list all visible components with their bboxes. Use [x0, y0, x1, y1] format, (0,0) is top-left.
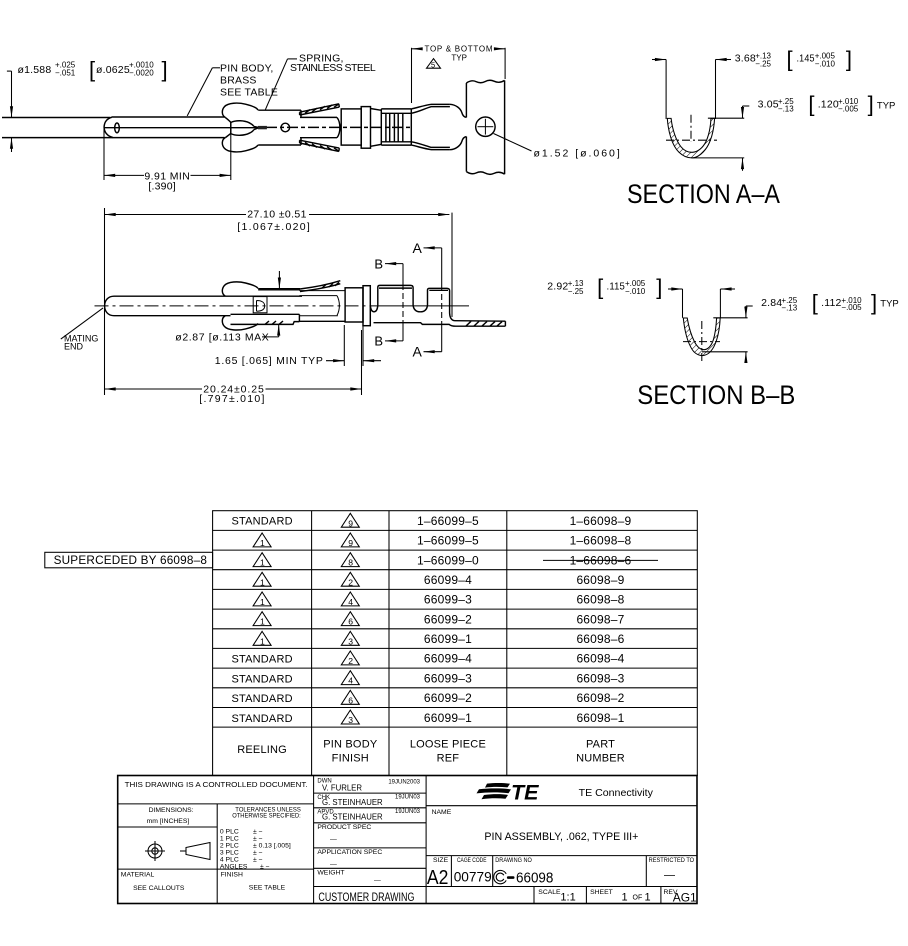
svg-text:G. STEINHAUER: G. STEINHAUER: [322, 798, 383, 807]
svg-text:5: 5: [431, 61, 435, 70]
svg-text:mm [INCHES]: mm [INCHES]: [147, 818, 190, 825]
svg-text:−.13: −.13: [781, 303, 797, 312]
svg-text:TYP: TYP: [880, 299, 898, 310]
svg-text:± −: ± −: [253, 857, 263, 864]
svg-text:DIMENSIONS:: DIMENSIONS:: [149, 807, 194, 814]
svg-text:1: 1: [260, 538, 265, 548]
svg-text:PIN BODY,: PIN BODY,: [220, 63, 274, 75]
svg-text:REF: REF: [437, 753, 460, 765]
svg-text:2 PLC: 2 PLC: [220, 843, 239, 850]
svg-text:]: ]: [846, 47, 852, 72]
svg-text:SUPERCEDED BY 66098–8: SUPERCEDED BY 66098–8: [54, 553, 208, 567]
svg-text:66098–6: 66098–6: [576, 632, 624, 646]
svg-text:66099–1: 66099–1: [424, 632, 472, 646]
svg-text:1–66099–0: 1–66099–0: [417, 553, 479, 567]
svg-text:3.68: 3.68: [735, 52, 756, 64]
svg-text:ø1.52 [ø.060]: ø1.52 [ø.060]: [534, 148, 621, 160]
svg-text:SCALE: SCALE: [538, 889, 561, 896]
svg-text:OF: OF: [633, 894, 643, 901]
svg-text:[: [: [787, 47, 793, 72]
svg-text:[.390]: [.390]: [148, 180, 175, 192]
svg-text:2.84: 2.84: [761, 297, 782, 309]
svg-text:FINISH: FINISH: [221, 872, 243, 879]
svg-text:[.797±.010]: [.797±.010]: [199, 393, 264, 405]
svg-text:6: 6: [348, 695, 353, 705]
svg-text:1: 1: [260, 558, 265, 568]
svg-text:SIZE: SIZE: [433, 857, 449, 864]
svg-text:1–66099–5: 1–66099–5: [417, 514, 479, 528]
svg-text:66099–3: 66099–3: [424, 593, 472, 607]
svg-text:3: 3: [348, 715, 353, 725]
svg-text:.115: .115: [607, 280, 626, 292]
svg-text:66098: 66098: [516, 871, 553, 887]
svg-text:3 PLC: 3 PLC: [220, 850, 239, 857]
svg-text:19JUN03: 19JUN03: [395, 809, 421, 815]
svg-text:19JUN2003: 19JUN2003: [388, 780, 420, 786]
svg-text:THIS DRAWING IS A CONTROLLED D: THIS DRAWING IS A CONTROLLED DOCUMENT.: [125, 780, 308, 789]
svg-text:NAME: NAME: [432, 809, 452, 816]
svg-text:A: A: [413, 344, 423, 360]
svg-text:SEE CALLOUTS: SEE CALLOUTS: [133, 885, 185, 892]
svg-text:1 PLC: 1 PLC: [220, 836, 239, 843]
svg-text:66099–1: 66099–1: [424, 711, 472, 725]
svg-text:1: 1: [260, 636, 265, 646]
svg-text:ANGLES: ANGLES: [220, 864, 248, 871]
svg-text:8: 8: [348, 558, 353, 568]
svg-text:−.0020: −.0020: [129, 69, 154, 78]
svg-text:—: —: [330, 861, 337, 868]
svg-text:66098–2: 66098–2: [576, 691, 624, 705]
svg-text:ø2.87 [ø.113 MAX: ø2.87 [ø.113 MAX: [175, 332, 269, 344]
svg-text:]: ]: [868, 92, 874, 117]
svg-text:DRAWING NO: DRAWING NO: [495, 857, 532, 864]
svg-text:± −: ± −: [253, 836, 263, 843]
svg-text:REELING: REELING: [237, 744, 287, 756]
svg-text:66099–2: 66099–2: [424, 691, 472, 705]
svg-text:−.005: −.005: [838, 105, 859, 114]
svg-text:.145: .145: [797, 52, 815, 64]
svg-text:2: 2: [348, 577, 353, 587]
svg-text:NUMBER: NUMBER: [576, 753, 625, 765]
svg-text:1–66098–9: 1–66098–9: [570, 514, 632, 528]
svg-text:[1.067±.020]: [1.067±.020]: [237, 221, 310, 233]
svg-text:G. STEINHAUER: G. STEINHAUER: [322, 813, 383, 822]
svg-text:TYP: TYP: [877, 100, 895, 111]
svg-text:OTHERWISE SPECIFIED:: OTHERWISE SPECIFIED:: [232, 813, 301, 820]
svg-text:]: ]: [871, 290, 877, 315]
svg-text:1: 1: [260, 577, 265, 587]
svg-text:STANDARD: STANDARD: [231, 654, 292, 666]
svg-text:TE Connectivity: TE Connectivity: [579, 788, 653, 799]
svg-text:STANDARD: STANDARD: [231, 693, 292, 705]
svg-text:]: ]: [656, 274, 662, 299]
svg-text:−.005: −.005: [841, 303, 862, 312]
svg-text:APPLICATION SPEC: APPLICATION SPEC: [317, 849, 382, 856]
svg-text:TYP: TYP: [451, 53, 467, 62]
svg-text:FINISH: FINISH: [332, 753, 369, 765]
svg-text:66098–1: 66098–1: [576, 711, 624, 725]
svg-text:[: [: [597, 274, 603, 299]
svg-text:[: [: [808, 92, 814, 117]
svg-text:AG1: AG1: [673, 891, 697, 905]
svg-text:00779: 00779: [454, 869, 492, 885]
svg-text:66099–4: 66099–4: [424, 573, 472, 587]
svg-text:[: [: [89, 57, 95, 82]
svg-text:RESTRICTED TO: RESTRICTED TO: [649, 857, 695, 864]
svg-text:± 0.13 [.005]: ± 0.13 [.005]: [253, 843, 291, 850]
svg-text:PRODUCT SPEC: PRODUCT SPEC: [317, 824, 371, 831]
svg-text:SEE TABLE: SEE TABLE: [220, 87, 278, 99]
svg-text:ø1.588: ø1.588: [18, 64, 52, 76]
svg-text:B: B: [374, 334, 383, 349]
svg-text:A: A: [413, 240, 423, 256]
svg-text:2.92: 2.92: [547, 280, 568, 292]
svg-text:1: 1: [260, 617, 265, 627]
svg-text:66098–9: 66098–9: [576, 573, 624, 587]
svg-text:−.25: −.25: [755, 59, 771, 68]
svg-text:3: 3: [348, 636, 353, 646]
svg-text:WEIGHT: WEIGHT: [317, 870, 344, 877]
svg-text:± −: ± −: [260, 864, 270, 871]
svg-text:0 PLC: 0 PLC: [220, 829, 239, 836]
svg-text:PIN BODY: PIN BODY: [323, 739, 378, 751]
svg-text:[: [: [812, 290, 818, 315]
svg-text:A2: A2: [427, 867, 449, 889]
svg-text:STANDARD: STANDARD: [231, 713, 292, 725]
svg-text:−.051: −.051: [55, 69, 76, 78]
svg-text:PART: PART: [586, 739, 615, 751]
svg-text:19JUN03: 19JUN03: [395, 794, 421, 800]
svg-text:± −: ± −: [253, 829, 263, 836]
svg-text:−.010: −.010: [815, 59, 836, 68]
svg-text:V. FURLER: V. FURLER: [322, 783, 362, 792]
svg-text:−.010: −.010: [625, 287, 646, 296]
svg-text:66098–4: 66098–4: [576, 652, 624, 666]
svg-text:CAGE CODE: CAGE CODE: [457, 857, 487, 864]
svg-text:]: ]: [162, 57, 168, 82]
svg-text:6: 6: [348, 617, 353, 627]
svg-text:1.65 [.065] MIN TYP: 1.65 [.065] MIN TYP: [215, 355, 323, 367]
svg-text:66099–2: 66099–2: [424, 612, 472, 626]
svg-text:END: END: [64, 341, 84, 351]
svg-text:LOOSE PIECE: LOOSE PIECE: [410, 739, 486, 751]
svg-text:—: —: [330, 837, 337, 844]
svg-text:66098–7: 66098–7: [576, 612, 624, 626]
svg-text:9: 9: [348, 518, 353, 528]
svg-text:1–66099–5: 1–66099–5: [417, 534, 479, 548]
svg-text:.112: .112: [821, 297, 841, 309]
svg-text:MATERIAL: MATERIAL: [121, 872, 155, 879]
svg-text:9: 9: [348, 538, 353, 548]
svg-text:STANDARD: STANDARD: [231, 516, 292, 528]
svg-text:−.13: −.13: [778, 105, 794, 114]
svg-text:1: 1: [260, 597, 265, 607]
svg-text:3.05: 3.05: [758, 99, 779, 111]
svg-text:1: 1: [645, 892, 651, 904]
svg-text:SHEET: SHEET: [590, 889, 613, 896]
svg-text:TE: TE: [511, 780, 539, 804]
svg-text:4: 4: [348, 676, 353, 686]
svg-text:CUSTOMER DRAWING: CUSTOMER DRAWING: [318, 892, 414, 904]
svg-text:BRASS: BRASS: [220, 75, 257, 87]
svg-text:TOP & BOTTOM: TOP & BOTTOM: [425, 44, 493, 53]
svg-text:66098–3: 66098–3: [576, 671, 624, 685]
svg-text:SEE TABLE: SEE TABLE: [249, 884, 286, 891]
svg-text:−.25: −.25: [568, 287, 584, 296]
svg-text:PIN ASSEMBLY, .062, TYPE III+: PIN ASSEMBLY, .062, TYPE III+: [484, 831, 638, 843]
svg-text:66099–4: 66099–4: [424, 652, 472, 666]
svg-text:1: 1: [622, 892, 628, 904]
svg-text:SECTION B–B: SECTION B–B: [637, 380, 795, 410]
svg-text:1–66098–8: 1–66098–8: [570, 534, 632, 548]
svg-text:STAINLESS STEEL: STAINLESS STEEL: [290, 62, 376, 74]
svg-text:66099–3: 66099–3: [424, 671, 472, 685]
svg-text:2: 2: [348, 656, 353, 666]
svg-text:1:1: 1:1: [560, 892, 575, 904]
svg-text:STANDARD: STANDARD: [231, 673, 292, 685]
svg-text:± −: ± −: [253, 850, 263, 857]
svg-text:B: B: [374, 257, 383, 272]
svg-text:66098–8: 66098–8: [576, 593, 624, 607]
svg-text:.120: .120: [818, 99, 839, 111]
svg-text:4 PLC: 4 PLC: [220, 857, 239, 864]
svg-text:—: —: [374, 877, 381, 884]
svg-text:27.10 ±0.51: 27.10 ±0.51: [247, 209, 307, 221]
svg-text:SECTION A–A: SECTION A–A: [627, 179, 780, 209]
svg-text:4: 4: [348, 597, 353, 607]
svg-text:—: —: [664, 870, 675, 882]
svg-text:ø.0625: ø.0625: [96, 64, 130, 76]
